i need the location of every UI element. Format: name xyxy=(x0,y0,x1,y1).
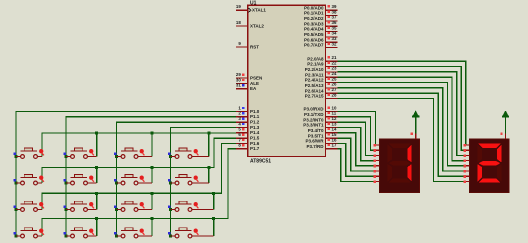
wire P2.4 to display DS2 pin 5 xyxy=(338,83,465,166)
svg-text:35: 35 xyxy=(332,25,337,30)
svg-text:P2.3/A11: P2.3/A11 xyxy=(305,72,324,77)
svg-text:36: 36 xyxy=(332,20,337,25)
wire row 1 net to P1.4 xyxy=(42,132,236,157)
svg-text:P3.0/RXD: P3.0/RXD xyxy=(303,107,324,112)
push button keypad row 2 col 1 xyxy=(14,175,44,185)
svg-text:RST: RST xyxy=(250,44,259,49)
push button keypad row 1 col 1 xyxy=(14,148,44,158)
wire column 4 net to P1.3 xyxy=(169,127,236,237)
svg-text:P0.1/AD1: P0.1/AD1 xyxy=(304,11,324,16)
pin P2.2 (23) xyxy=(326,71,338,73)
pin P3.4 (14) xyxy=(326,132,338,134)
svg-text:11: 11 xyxy=(332,111,337,116)
svg-text:P0.4/AD4: P0.4/AD4 xyxy=(304,27,324,32)
display DS2 (digit 2) segment B (on) xyxy=(497,145,501,163)
display DS1 (digit 1) segment C (on) xyxy=(407,164,411,182)
svg-text:P1.1: P1.1 xyxy=(250,114,260,119)
svg-text:P1.2: P1.2 xyxy=(250,120,260,125)
svg-text:P2.0/A8: P2.0/A8 xyxy=(307,56,324,61)
wire column 3 net to P1.2 xyxy=(115,122,236,237)
pin P2.5 (26) xyxy=(326,87,338,89)
wire P3.7 to display DS1 pin 8 xyxy=(338,149,375,182)
push button keypad row 4 col 3 xyxy=(114,228,152,238)
wire P2.2 to display DS2 pin 3 xyxy=(338,72,465,156)
pin P2.6 (27) xyxy=(326,92,338,94)
pin P0.3 (36) xyxy=(326,25,338,27)
svg-text:P3.6/WR: P3.6/WR xyxy=(305,139,324,144)
push button keypad row 4 col 1 xyxy=(14,228,44,238)
svg-text:25: 25 xyxy=(332,76,337,81)
svg-text:16: 16 xyxy=(332,137,337,142)
pin P1.5 (6) xyxy=(236,137,248,139)
display DS2 (digit 2) segment C (off) xyxy=(497,164,501,182)
svg-text:P2.7/A15: P2.7/A15 xyxy=(305,94,324,99)
svg-text:P2.4/A12: P2.4/A12 xyxy=(305,78,324,83)
display DS1 (digit 1) segment B (on) xyxy=(407,145,411,163)
display DS1 (digit 1) common pin stub xyxy=(415,134,417,139)
display DS2 (digit 2) pin marker xyxy=(500,133,502,135)
push button keypad row 4 col 4 xyxy=(168,228,214,238)
pin P0.5 (34) xyxy=(326,36,338,38)
display DS1 (digit 1) wire to VCC xyxy=(415,117,417,133)
pin P3.0 (10) xyxy=(326,111,338,113)
wire P2.0 to display DS2 pin 1 xyxy=(338,61,466,145)
pin P0.4 (35) xyxy=(326,31,338,33)
svg-text:12: 12 xyxy=(332,116,337,121)
svg-text:13: 13 xyxy=(332,121,337,126)
svg-text:P2.2/A10: P2.2/A10 xyxy=(305,67,324,72)
pin P1.1 (2) xyxy=(236,116,248,118)
display DS2 (digit 2) segment A (on) xyxy=(479,144,501,148)
svg-text:37: 37 xyxy=(332,15,337,20)
display DS1 (digit 1) segment F (off) xyxy=(388,145,392,163)
pin XTAL1 (19) xyxy=(236,9,248,11)
display DS2 (digit 2) segment D (on) xyxy=(479,178,501,182)
svg-text:P0.0/AD0: P0.0/AD0 xyxy=(304,5,324,10)
wire P3.0 to display DS1 pin 1 xyxy=(338,112,376,146)
pin P2.7 (28) xyxy=(326,98,338,100)
svg-text:ALE: ALE xyxy=(250,81,259,86)
pin P1.7 (8) xyxy=(236,148,248,150)
push button keypad row 1 col 2 xyxy=(64,148,97,158)
svg-text:P1.7: P1.7 xyxy=(250,146,260,151)
display DS2 (digit 2) wire to VCC xyxy=(505,117,507,133)
svg-text:P3.7/RD: P3.7/RD xyxy=(306,144,324,149)
pin XTAL2 (18) xyxy=(236,25,248,27)
pin P3.5 (15) xyxy=(326,137,338,139)
pin P3.2 (12) xyxy=(326,121,338,123)
svg-text:10: 10 xyxy=(332,105,337,110)
wire column 2 net to P1.1 xyxy=(65,117,236,238)
wire P2.3 to display DS2 pin 4 xyxy=(338,77,465,160)
svg-text:AT89C51: AT89C51 xyxy=(250,159,271,165)
svg-text:30: 30 xyxy=(236,77,241,82)
display DS2 (digit 2) left pin stubs xyxy=(463,144,469,183)
pin P1.4 (5) xyxy=(236,132,248,134)
svg-text:P3.4/T0: P3.4/T0 xyxy=(308,128,324,133)
wire P2.6 to display DS2 pin 7 xyxy=(338,93,465,176)
display DS2 (digit 2) segment G (on) xyxy=(479,161,501,165)
svg-text:26: 26 xyxy=(332,82,337,87)
pin P2.4 (25) xyxy=(326,82,338,84)
wire P2.5 to display DS2 pin 6 xyxy=(338,88,465,171)
pin P1.0 (1) xyxy=(236,111,248,113)
display DS2 (digit 2) segment E (on) xyxy=(478,164,482,182)
svg-text:15: 15 xyxy=(332,132,337,137)
svg-text:P3.1/TXD: P3.1/TXD xyxy=(304,112,324,117)
wire P3.4 to display DS1 pin 5 xyxy=(338,133,375,166)
display DS1 (digit 1) segment D (off) xyxy=(389,178,411,182)
pin P0.6 (33) xyxy=(326,41,338,43)
svg-text:24: 24 xyxy=(332,71,337,76)
push button keypad row 2 col 4 xyxy=(168,175,209,185)
display DS2 (digit 2) common pin stub xyxy=(505,134,507,139)
pin P1.3 (4) xyxy=(236,126,248,128)
svg-text:P1.3: P1.3 xyxy=(250,125,260,130)
svg-text:P1.0: P1.0 xyxy=(250,109,260,114)
wire P3.2 to display DS1 pin 3 xyxy=(338,122,375,155)
pin EA (31) xyxy=(236,88,248,90)
display DS1 (digit 1) pin marker xyxy=(411,133,413,135)
svg-text:PSEN: PSEN xyxy=(250,76,262,81)
wire P3.3 to display DS1 pin 4 xyxy=(338,127,375,160)
pin RST (9) xyxy=(236,46,248,48)
pin P2.3 (24) xyxy=(326,76,338,78)
push button keypad row 3 col 1 xyxy=(14,201,44,211)
svg-text:P1.6: P1.6 xyxy=(250,141,260,146)
svg-text:32: 32 xyxy=(332,41,337,46)
pin P1.6 (7) xyxy=(236,142,248,144)
push button keypad row 3 col 3 xyxy=(114,201,152,211)
pin P3.3 (13) xyxy=(326,126,338,128)
7-segment display DS2 (digit 2) body xyxy=(469,139,509,193)
svg-text:33: 33 xyxy=(332,36,337,41)
pin P3.1 (11) xyxy=(326,116,338,118)
push button keypad row 4 col 2 xyxy=(64,228,97,238)
pin P0.0 (39) xyxy=(326,9,338,11)
svg-text:19: 19 xyxy=(236,4,241,9)
pin P2.0 (21) xyxy=(326,60,338,62)
pin P0.7 (32) xyxy=(326,47,338,49)
svg-text:17: 17 xyxy=(332,143,337,148)
svg-text:27: 27 xyxy=(332,87,337,92)
pin P1.2 (3) xyxy=(236,121,248,123)
push button keypad row 1 col 4 xyxy=(168,148,209,158)
svg-text:P0.6/AD6: P0.6/AD6 xyxy=(304,37,324,42)
wire column 1 net to P1.0 xyxy=(15,112,236,238)
svg-text:34: 34 xyxy=(332,31,337,36)
svg-text:XTAL2: XTAL2 xyxy=(250,23,264,28)
wire P2.7 to display DS2 pin 8 xyxy=(338,99,465,182)
display DS1 (digit 1) segment G (off) xyxy=(389,161,411,165)
svg-text:P3.5/T1: P3.5/T1 xyxy=(308,133,324,138)
wire row 3 net to P1.6 xyxy=(42,143,236,209)
svg-text:P2.5/A13: P2.5/A13 xyxy=(305,83,324,88)
pin P2.1 (22) xyxy=(326,66,338,68)
display DS1 (digit 1) segment A (off) xyxy=(389,144,411,148)
wire P3.1 to display DS1 pin 2 xyxy=(338,117,375,150)
svg-text:23: 23 xyxy=(332,66,337,71)
push button keypad row 3 col 4 xyxy=(168,201,214,211)
svg-text:22: 22 xyxy=(332,60,337,65)
svg-text:31: 31 xyxy=(236,83,241,88)
svg-text:39: 39 xyxy=(332,4,337,9)
pin P3.6 (16) xyxy=(326,142,338,144)
svg-text:P3.3/INT1: P3.3/INT1 xyxy=(303,123,324,128)
svg-text:P0.2/AD2: P0.2/AD2 xyxy=(304,16,324,21)
svg-text:38: 38 xyxy=(332,9,337,14)
push button keypad row 1 col 3 xyxy=(114,148,152,158)
wire row 2 net to P1.5 xyxy=(42,138,236,183)
pin ALE (30) xyxy=(236,82,248,84)
display DS2 (digit 2) segment F (off) xyxy=(478,145,482,163)
svg-text:P0.7/AD7: P0.7/AD7 xyxy=(304,43,324,48)
pin P3.7 (17) xyxy=(326,148,338,150)
display DS1 (digit 1) segment E (off) xyxy=(388,164,392,182)
svg-text:U1: U1 xyxy=(250,1,257,7)
svg-text:P2.1/A9: P2.1/A9 xyxy=(307,62,324,67)
VCC power arrow above display DS1 (digit 1) xyxy=(413,110,419,116)
push button keypad row 2 col 3 xyxy=(114,175,152,185)
svg-text:P1.5: P1.5 xyxy=(250,136,260,141)
svg-text:28: 28 xyxy=(332,92,337,97)
wire P3.6 to display DS1 pin 7 xyxy=(338,143,375,176)
svg-text:21: 21 xyxy=(332,55,337,60)
pin PSEN (29) xyxy=(236,77,248,79)
svg-text:14: 14 xyxy=(332,127,337,132)
svg-text:P1.4: P1.4 xyxy=(250,130,260,135)
pin P0.2 (37) xyxy=(326,20,338,22)
svg-text:P2.6/A14: P2.6/A14 xyxy=(305,88,324,93)
svg-text:18: 18 xyxy=(236,20,241,25)
pin P0.1 (38) xyxy=(326,15,338,17)
svg-text:P3.2/INT0: P3.2/INT0 xyxy=(303,117,324,122)
push button keypad row 3 col 2 xyxy=(64,201,97,211)
VCC power arrow above display DS2 (digit 2) xyxy=(503,110,509,116)
svg-text:29: 29 xyxy=(236,72,241,77)
svg-text:XTAL1: XTAL1 xyxy=(252,8,266,13)
wire P3.5 to display DS1 pin 6 xyxy=(338,138,375,171)
push button keypad row 2 col 2 xyxy=(64,175,97,185)
svg-text:EA: EA xyxy=(250,86,257,91)
display DS1 (digit 1) left pin stubs xyxy=(374,144,380,183)
svg-text:P0.3/AD3: P0.3/AD3 xyxy=(304,21,324,26)
chip U1 AT89C51 body xyxy=(248,5,326,156)
wire P2.1 to display DS2 pin 2 xyxy=(338,67,465,151)
wire row 4 net to P1.7 xyxy=(42,149,236,236)
svg-text:P0.5/AD5: P0.5/AD5 xyxy=(304,32,324,37)
7-segment display DS1 (digit 1) body xyxy=(380,139,420,193)
